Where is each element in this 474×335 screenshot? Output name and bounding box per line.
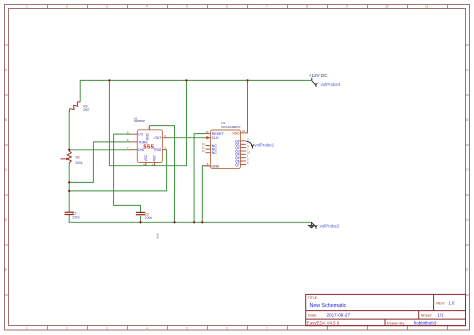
svg-text:555: 555: [143, 145, 154, 151]
svg-text:R2: R2: [76, 155, 80, 159]
svg-text:CLK: CLK: [212, 136, 220, 140]
svg-text:GND: GND: [212, 164, 220, 168]
svg-text:7: 7: [266, 4, 268, 8]
svg-text:B: B: [5, 118, 7, 122]
svg-text:6: 6: [226, 4, 228, 8]
svg-text:1.0: 1.0: [449, 301, 455, 306]
svg-text:GND: GND: [145, 132, 149, 140]
svg-text:16: 16: [242, 129, 246, 133]
svg-text:E: E: [466, 268, 468, 272]
svg-text:REV:: REV:: [436, 301, 445, 306]
svg-text:8: 8: [306, 4, 308, 8]
svg-text:100n: 100n: [145, 216, 153, 220]
svg-text:OUT: OUT: [154, 136, 161, 140]
svg-text:Sheet:: Sheet:: [421, 313, 433, 318]
svg-text:11: 11: [202, 149, 205, 153]
svg-text:+12V DC: +12V DC: [309, 73, 328, 78]
svg-text:hobbitbob3: hobbitbob3: [414, 321, 437, 326]
svg-text:volProbe1: volProbe1: [254, 143, 274, 148]
svg-text:MC14049BCP: MC14049BCP: [221, 125, 240, 129]
svg-text:E: E: [5, 268, 7, 272]
svg-text:Q7: Q7: [235, 163, 240, 167]
svg-text:B: B: [466, 118, 468, 122]
svg-text:11: 11: [425, 4, 429, 8]
svg-text:NC: NC: [212, 151, 218, 155]
svg-text:220n: 220n: [72, 216, 80, 220]
svg-text:10: 10: [385, 4, 389, 8]
svg-text:2017-06-27: 2017-06-27: [327, 312, 351, 317]
svg-text:15: 15: [205, 130, 209, 134]
svg-text:3: 3: [106, 4, 108, 8]
svg-text:2: 2: [66, 4, 68, 8]
svg-text:500k: 500k: [76, 161, 84, 165]
svg-text:Date:: Date:: [308, 312, 318, 317]
svg-text:9: 9: [346, 4, 348, 8]
svg-text:New Schematic: New Schematic: [310, 303, 347, 309]
svg-text:2M7: 2M7: [83, 108, 90, 112]
svg-text:TRIG: TRIG: [153, 148, 161, 152]
svg-text:4: 4: [146, 326, 148, 330]
svg-text:5: 5: [186, 326, 188, 330]
svg-text:1: 1: [26, 4, 28, 8]
svg-text:VDD: VDD: [232, 131, 240, 135]
svg-text:RST: RST: [153, 155, 157, 161]
svg-text:CV: CV: [138, 133, 143, 137]
svg-text:volProbe2: volProbe2: [320, 223, 340, 228]
svg-text:4: 4: [146, 4, 148, 8]
svg-text:Drawn By:: Drawn By:: [387, 321, 405, 326]
svg-text:2: 2: [66, 326, 68, 330]
svg-text:TITLE:: TITLE:: [308, 296, 318, 300]
svg-text:6: 6: [226, 326, 228, 330]
svg-text:5: 5: [186, 4, 188, 8]
svg-text:EasyEDA V4.5.6: EasyEDA V4.5.6: [307, 321, 340, 326]
svg-text:volProbe3: volProbe3: [321, 82, 341, 87]
svg-text:7: 7: [266, 326, 268, 330]
svg-text:3: 3: [106, 326, 108, 330]
svg-text:NE555P: NE555P: [134, 119, 145, 123]
svg-text:1: 1: [26, 326, 28, 330]
svg-text:1/1: 1/1: [438, 313, 444, 318]
svg-text:VCC: VCC: [144, 154, 148, 161]
